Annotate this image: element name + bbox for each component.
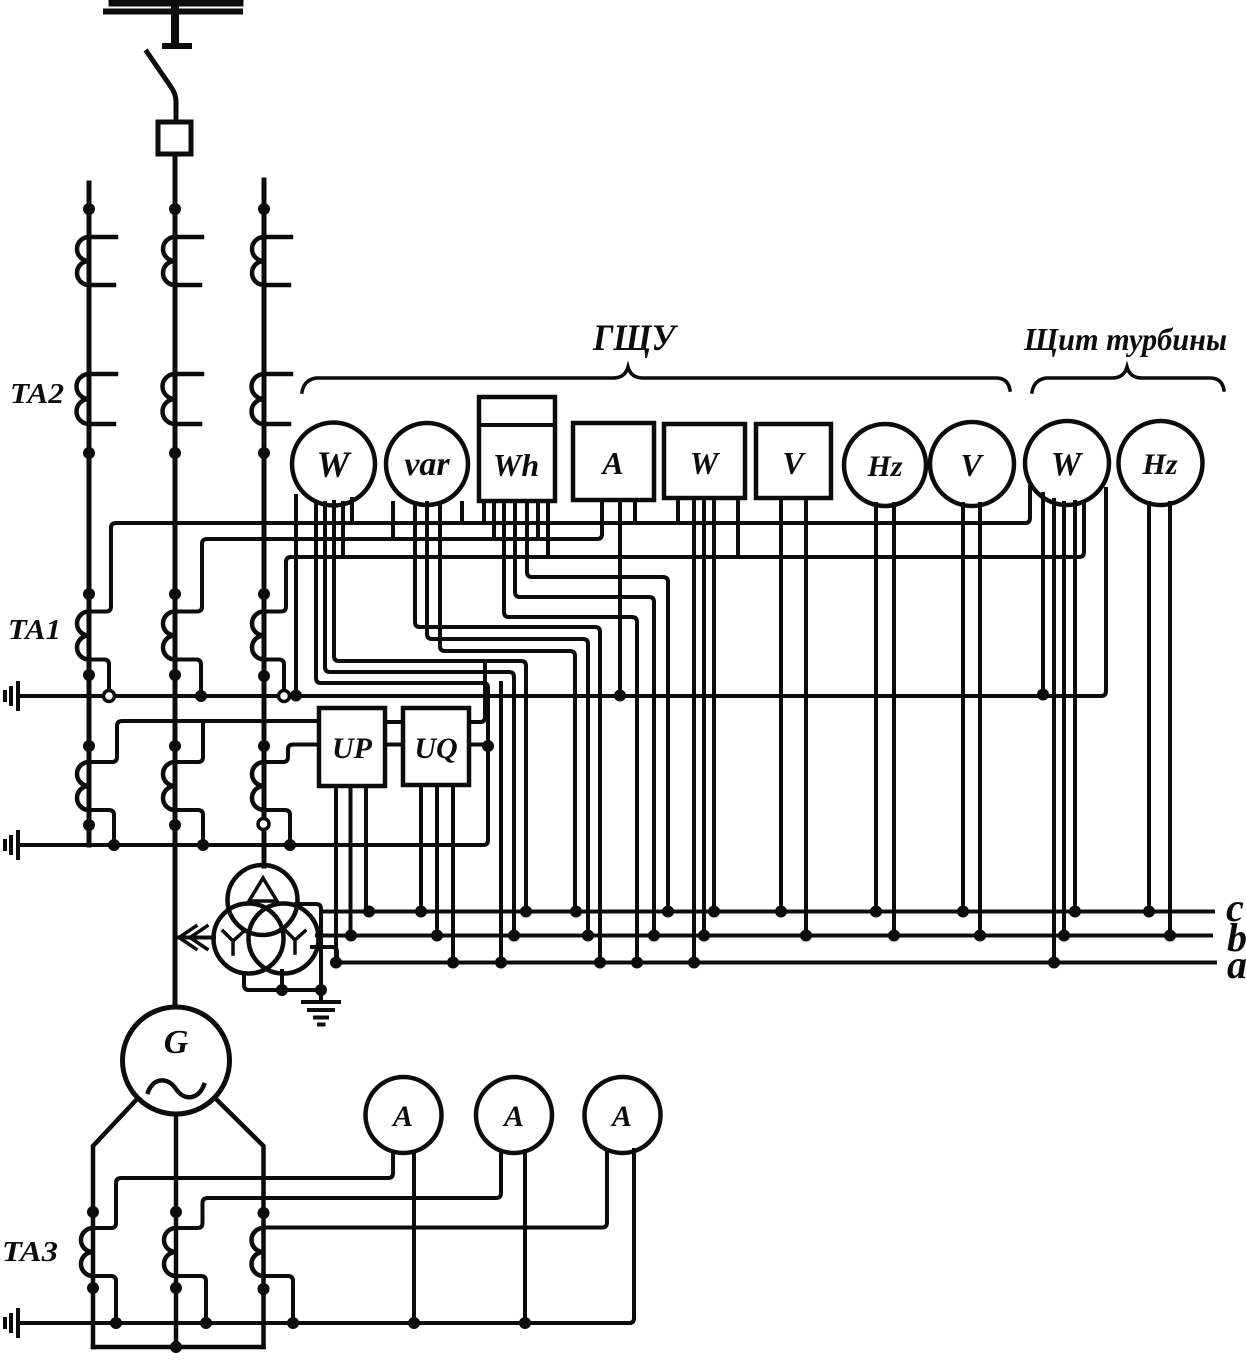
- brace turbine panel: [1032, 367, 1224, 392]
- svg-text:TA3: TA3: [2, 1236, 58, 1268]
- wire TV primary to phase B: [176, 936, 214, 940]
- voltage transformer TV left winding: [214, 904, 284, 974]
- CT TA2 phase C winding: [251, 374, 264, 424]
- voltmeter V (circle): [930, 422, 1014, 506]
- svg-text:Hz: Hz: [866, 450, 902, 483]
- svg-text:TA2: TA2: [10, 378, 64, 410]
- wire TV secondary bottom bar: [244, 971, 321, 990]
- wire varmeter lead1 staircase to bus a: [415, 503, 600, 959]
- CT set1 phase A winding: [77, 237, 89, 285]
- stub ammeter lead3 to H1: [633, 500, 637, 523]
- ground symbol 1: [5, 683, 18, 709]
- wire TA1-A bottom tap to ground bus: [89, 660, 109, 692]
- wire ammeter A3 return to ground bus 3: [629, 1150, 634, 1323]
- phase B conductor: [173, 209, 178, 1007]
- wire wattmeter lead2 staircase to bus b: [325, 503, 514, 932]
- wire ammeter A2 return to ground bus 3: [523, 1151, 527, 1323]
- stub wattmeter lead5 to H1: [350, 499, 354, 523]
- wire TV top to bus c corner: [296, 904, 321, 985]
- bus a: [337, 961, 1215, 965]
- wire ammeter A1 return to ground bus 3: [412, 1152, 416, 1324]
- wire panel wattmeter lead2 to bus b: [702, 498, 706, 932]
- wire voltmeter circle lead2 to bus b: [978, 504, 982, 932]
- transducer UQ: [403, 708, 469, 785]
- voltage transformer TV top winding: [228, 865, 298, 935]
- ammeter A (panel): [573, 423, 654, 500]
- dot neutral junction: [170, 1341, 182, 1353]
- wire turbine wattmeter lead1 to ground bus 1: [1041, 494, 1045, 694]
- junction dots phase B: [169, 203, 181, 831]
- CT set4 phase A winding: [77, 762, 89, 810]
- ground bus 3: [18, 1321, 630, 1325]
- stub Wh lead6 to H3: [546, 501, 550, 557]
- busbar system second line: [106, 9, 240, 15]
- wire TA3-A bottom tap to ground bus 3: [93, 1276, 116, 1323]
- CT TA3 phase C winding: [252, 1228, 264, 1276]
- svg-text:UP: UP: [332, 732, 373, 765]
- ground symbol 3: [5, 1310, 18, 1336]
- wire varmeter lead3 staircase to bus c: [440, 503, 575, 908]
- wire wattmeter left lead to ground bus 1: [294, 496, 298, 695]
- wire wattmeter lead3 staircase to bus c: [334, 502, 526, 908]
- wire UP lead1 to bus a: [334, 786, 338, 959]
- CT set1 phase C taps: [264, 237, 291, 285]
- wattmeter W (panel square): [664, 424, 745, 498]
- CT TA3 phase B winding: [164, 1228, 176, 1276]
- bus b: [317, 934, 1211, 938]
- wire breaker to phase B: [173, 154, 178, 212]
- stub Wh lead5b to H2: [536, 501, 540, 539]
- CT set4 phase B winding: [163, 762, 175, 810]
- wire panel voltmeter lead2 to bus b: [804, 498, 808, 932]
- svg-text:var: var: [404, 446, 450, 483]
- terminal ring phase C node: [258, 819, 269, 830]
- connector chevrons: [179, 926, 207, 949]
- wire UQ lead3 to bus a: [451, 785, 455, 959]
- wire TA1-A top tap to H1 to turbine wattmeter: [89, 487, 1030, 612]
- link UP-UQ lower: [385, 743, 403, 747]
- brace panel GShchU: [302, 367, 1010, 392]
- wire UP lead3 to bus c: [364, 786, 368, 908]
- wattmeter W (GShchU): [292, 423, 375, 506]
- voltage transformer TV right winding: [249, 904, 319, 974]
- ring junction TA1-A on ground bus 1: [104, 691, 115, 702]
- stub wattmeter lead4 to H3: [341, 503, 345, 557]
- wire set4-A bottom tap to ground bus 2: [89, 810, 114, 845]
- svg-text:A: A: [391, 1100, 413, 1133]
- generator G: [123, 1007, 230, 1114]
- circuit breaker Q: [158, 122, 191, 154]
- wire wattmeter lead1 staircase to ground bus 2: [18, 502, 488, 845]
- svg-text:Hz: Hz: [1141, 448, 1177, 481]
- svg-text:A: A: [600, 445, 623, 481]
- varmeter var: [386, 423, 468, 505]
- earth symbol TV: [303, 990, 339, 1025]
- ammeter A3: [585, 1077, 661, 1153]
- wire varmeter lead2 staircase to bus b: [427, 503, 588, 932]
- busbar system top line: [112, 0, 240, 7]
- dot wattmeter lead on ground bus 1: [290, 690, 302, 702]
- wire TA1-C top tap to H3 to turbine wattmeter: [264, 503, 1084, 612]
- CT TA2 phase B taps: [175, 374, 202, 424]
- dot ammeter lead on ground bus 1: [614, 690, 626, 702]
- stub Wh lead1 to H1: [482, 501, 486, 523]
- frequency meter Hz: [844, 424, 926, 506]
- svg-text:V: V: [960, 447, 984, 483]
- CT set1 phase B winding: [163, 237, 175, 285]
- CT set1 phase C winding: [252, 237, 264, 285]
- voltmeter V (panel square): [756, 424, 831, 498]
- dot junction TA1-B on ground bus 1: [195, 690, 207, 702]
- wire turbine wattmeter lead3 to bus b: [1062, 503, 1066, 932]
- turbine wattmeter W: [1025, 421, 1109, 505]
- wire turbine Hz lead1 to bus c: [1147, 503, 1151, 908]
- ground symbol 2: [5, 832, 18, 858]
- wire Hz meter lead2 to bus b: [892, 504, 896, 932]
- wire panel wattmeter lead1 to bus a: [692, 498, 696, 959]
- wire TA3-C bottom tap to ground bus 3: [264, 1276, 294, 1323]
- generator lead left: [93, 1098, 138, 1347]
- wire set4-B bottom tap to ground bus 2: [175, 810, 203, 845]
- wire UQ lead1 to bus c: [419, 785, 423, 908]
- svg-text:ГЩУ: ГЩУ: [592, 318, 679, 359]
- wire TA3-C top tap to ammeter A3: [264, 1151, 608, 1228]
- wire set4-A top tap to UP input1: [89, 721, 319, 762]
- busbar drop stub: [171, 1, 179, 44]
- dot TV earth junction: [315, 984, 327, 996]
- CT TA2 phase A taps: [89, 374, 116, 424]
- wire TA1-C bottom tap to ground bus: [264, 660, 284, 693]
- junction dots ground bus 3: [110, 1317, 531, 1329]
- CT TA1 phase B winding: [163, 612, 175, 660]
- junction dots phase A: [83, 203, 95, 831]
- CT TA2 phase B winding: [163, 374, 176, 424]
- CT TA3 phase A winding: [81, 1228, 93, 1276]
- wire panel wattmeter lead3 to bus c: [712, 498, 716, 908]
- junction dots set4 taps on ground bus 2: [108, 839, 296, 851]
- delta symbol: [249, 878, 277, 901]
- disconnector QS blade: [147, 52, 176, 121]
- svg-text:A: A: [610, 1100, 632, 1133]
- wire set4-C bottom tap to ground bus 2: [264, 810, 290, 845]
- wire UQ lead2 to bus b: [435, 785, 439, 932]
- transducer UP: [319, 708, 385, 786]
- wire TA1-B bottom tap to ground bus: [175, 660, 201, 697]
- wire TA3-B top tap to ammeter A2: [176, 1151, 501, 1228]
- ammeter A2: [476, 1077, 552, 1153]
- svg-text:W: W: [690, 445, 721, 481]
- star symbol right: [285, 930, 305, 953]
- junction dots phase C: [258, 203, 270, 752]
- wire ammeter lead to ground bus 1: [618, 500, 622, 695]
- junction dots on bus c: [363, 906, 1155, 918]
- wire Wh lead5 staircase to bus c: [527, 501, 668, 908]
- dot TV secondary junction: [276, 984, 288, 996]
- dot turbine wattmeter lead on ground bus 1: [1037, 689, 1049, 701]
- wire TA3-A top tap to ammeter A1: [93, 1152, 393, 1228]
- turbine frequency meter Hz: [1119, 421, 1203, 505]
- wire voltmeter circle lead1 to bus c: [961, 504, 965, 908]
- junction dots TA3: [87, 1206, 270, 1295]
- junction dots on bus b: [345, 930, 1176, 942]
- link UQ output lower: [469, 743, 488, 747]
- CT TA1 phase A winding: [77, 612, 89, 660]
- CT set1 phase A taps: [89, 237, 116, 285]
- disconnector T-bar: [165, 43, 189, 49]
- wire turbine wattmeter lead2 to bus a: [1052, 500, 1056, 959]
- wire UP lead2 to bus b: [349, 786, 353, 932]
- wire set4-B top tap joins UP input wire: [175, 721, 203, 762]
- svg-text:V: V: [782, 445, 806, 481]
- svg-text:W: W: [1051, 446, 1084, 483]
- svg-text:UQ: UQ: [414, 732, 457, 765]
- generator lead right: [215, 1098, 264, 1347]
- ammeter A1: [366, 1077, 442, 1153]
- CT TA2 phase C taps: [264, 374, 291, 424]
- svg-text:TA1: TA1: [8, 614, 61, 646]
- ring junction TA1-C on ground bus 1: [279, 691, 290, 702]
- wire turbine wattmeter lead4 to bus c: [1073, 502, 1077, 908]
- svg-text:Щит турбины: Щит турбины: [1023, 321, 1227, 357]
- wire Hz meter lead1 to bus c: [874, 504, 878, 908]
- stub panel wattmeter lead0 to H1: [676, 498, 680, 523]
- star symbol left: [223, 931, 243, 954]
- bus c: [321, 910, 1213, 914]
- wire set4-C top tap to UP input2: [264, 745, 319, 763]
- wire TA3-B bottom tap to ground bus 3: [176, 1276, 206, 1323]
- CT set1 phase B taps: [175, 237, 202, 285]
- ground bus 1: [18, 489, 1106, 696]
- svg-text:Wh: Wh: [493, 447, 539, 483]
- stub varmeter left lead to H2: [391, 503, 395, 539]
- link UQ output upper riser: [469, 661, 485, 722]
- stub panel wattmeter lead4 to H3: [736, 498, 740, 557]
- wire panel voltmeter lead1 to bus c: [779, 498, 783, 908]
- stub varmeter right lead to H1: [460, 503, 464, 523]
- energy meter Wh: [479, 397, 555, 501]
- phase C conductor: [262, 180, 267, 866]
- CT set4 phase C winding: [252, 762, 264, 810]
- CT TA2 phase A winding: [77, 374, 90, 424]
- dot UQ output junction: [482, 740, 494, 752]
- svg-text:W: W: [317, 445, 353, 486]
- wire Wh lead4 staircase to bus b: [515, 501, 654, 932]
- generator sine mark: [148, 1080, 204, 1097]
- CT TA1 phase C winding: [252, 612, 264, 660]
- phase A conductor: [87, 183, 92, 845]
- wire staircase branch to bus a: [499, 683, 503, 959]
- stub Wh lead2 to H2: [492, 501, 496, 539]
- generator lead centre: [174, 1114, 179, 1347]
- wire TV right winding to bus a corner: [312, 947, 337, 960]
- generator neutral bar: [93, 1345, 264, 1350]
- wire turbine Hz lead2 to bus b: [1168, 503, 1172, 932]
- wire TA1-B top tap to H2 to ammeter: [175, 500, 602, 612]
- link UP-UQ upper: [385, 720, 403, 724]
- wire Wh lead3 staircase to bus a: [504, 501, 637, 959]
- svg-text:a: a: [1227, 942, 1246, 987]
- svg-text:A: A: [502, 1100, 524, 1133]
- junction dots on bus a: [330, 957, 1060, 969]
- svg-text:G: G: [164, 1024, 189, 1061]
